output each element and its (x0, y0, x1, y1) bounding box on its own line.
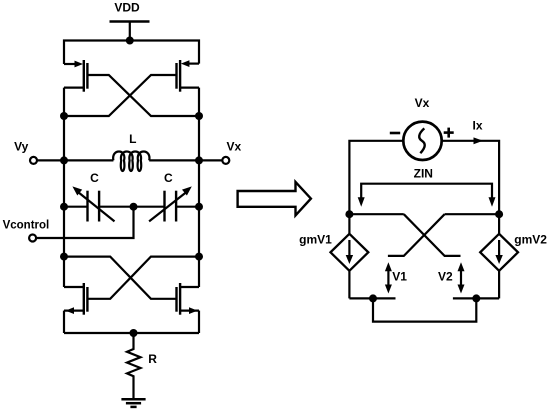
svg-text:gmV2: gmV2 (514, 233, 547, 247)
source VX circle (403, 122, 441, 160)
wire M1 gate cross-couple to right node (87, 75, 199, 116)
svg-text:V1: V1 (392, 270, 407, 284)
terminal Vx (222, 157, 229, 164)
svg-text:R: R (148, 352, 157, 366)
terminal Vcontrol (29, 235, 36, 242)
wire left rail mid (63, 160, 65, 256)
terminal Vy (30, 157, 37, 164)
svg-text:VDD: VDD (114, 1, 140, 15)
wire top rail right segment (445, 213, 500, 215)
svg-text:ZIN: ZIN (414, 167, 433, 181)
node tail (130, 329, 138, 337)
V2 arrow (458, 262, 465, 293)
wire source left to rail (349, 141, 403, 214)
wire M2 gate cross-couple to left node (64, 75, 177, 116)
node NMOS left (60, 253, 68, 261)
node varactor right (195, 203, 203, 211)
ZIN arrow right (489, 197, 496, 207)
inductor L (64, 151, 199, 171)
node varactor left (60, 203, 68, 211)
node left drain (60, 112, 68, 120)
VDD supply bar (110, 20, 150, 22)
node bottom right (472, 294, 480, 302)
wire bottom rail (64, 332, 199, 334)
wire bottom right segment (453, 297, 499, 299)
node Vx rail (195, 156, 203, 164)
wire right rail mid (198, 160, 200, 256)
transistor M2 PMOS right (177, 60, 200, 92)
wire Vx to rail (199, 159, 222, 161)
svg-text:L: L (129, 132, 136, 146)
svg-text:Vx: Vx (415, 96, 430, 110)
node top left (345, 210, 353, 218)
ZIN bracket (361, 184, 492, 199)
wire left rail upper (63, 88, 65, 161)
ZIN arrow left (358, 197, 365, 207)
svg-text:Ix: Ix (472, 119, 482, 133)
node NMOS right (195, 253, 203, 261)
wire cross left-to-right hook (404, 214, 461, 256)
svg-text:Vx: Vx (226, 140, 241, 154)
wire source right with Ix arrow (442, 141, 499, 214)
wire bottom left segment (349, 297, 395, 299)
wire Vy to rail (37, 159, 64, 161)
wire Vcontrol (36, 207, 133, 238)
transistor M4 NMOS right (177, 257, 200, 333)
svg-text:C: C (90, 171, 99, 185)
Ix current arrowhead (474, 137, 484, 144)
varactor C2 (149, 183, 194, 221)
minus sign (390, 132, 400, 135)
node Vy rail (60, 156, 68, 164)
varactor row wire (64, 206, 199, 208)
svg-text:C: C (164, 171, 173, 185)
node VDD dot (126, 37, 134, 45)
svg-text:gmV1: gmV1 (299, 233, 332, 247)
svg-text:Vcontrol: Vcontrol (3, 220, 50, 232)
dependent source gmV1 (331, 214, 369, 298)
V1 arrow (385, 262, 392, 293)
svg-text:Vy: Vy (14, 140, 29, 154)
dependent source gmV2 (480, 214, 518, 298)
node top right (495, 210, 503, 218)
varactor C1 (70, 183, 115, 221)
node varactor center (130, 203, 138, 211)
plus sign (444, 128, 454, 138)
transistor M1 PMOS left (64, 60, 87, 92)
transistor M3 NMOS left (64, 257, 87, 333)
wire bottom U (373, 298, 476, 321)
wire M4 gate cross-couple from left node (64, 257, 177, 299)
ground (121, 399, 145, 407)
node right drain (195, 112, 203, 120)
wire top rail left segment (349, 213, 403, 215)
wire M3 gate cross-couple from right node (87, 257, 199, 299)
wire top rail (64, 41, 199, 65)
wire right rail upper (198, 88, 200, 161)
node bottom left (369, 294, 377, 302)
resistor R (127, 333, 141, 399)
block arrow implies (238, 182, 311, 216)
wire VDD stem (129, 22, 131, 41)
svg-text:V2: V2 (438, 270, 453, 284)
source VX sine (419, 128, 425, 153)
wire cross right-to-left hook (388, 214, 445, 256)
